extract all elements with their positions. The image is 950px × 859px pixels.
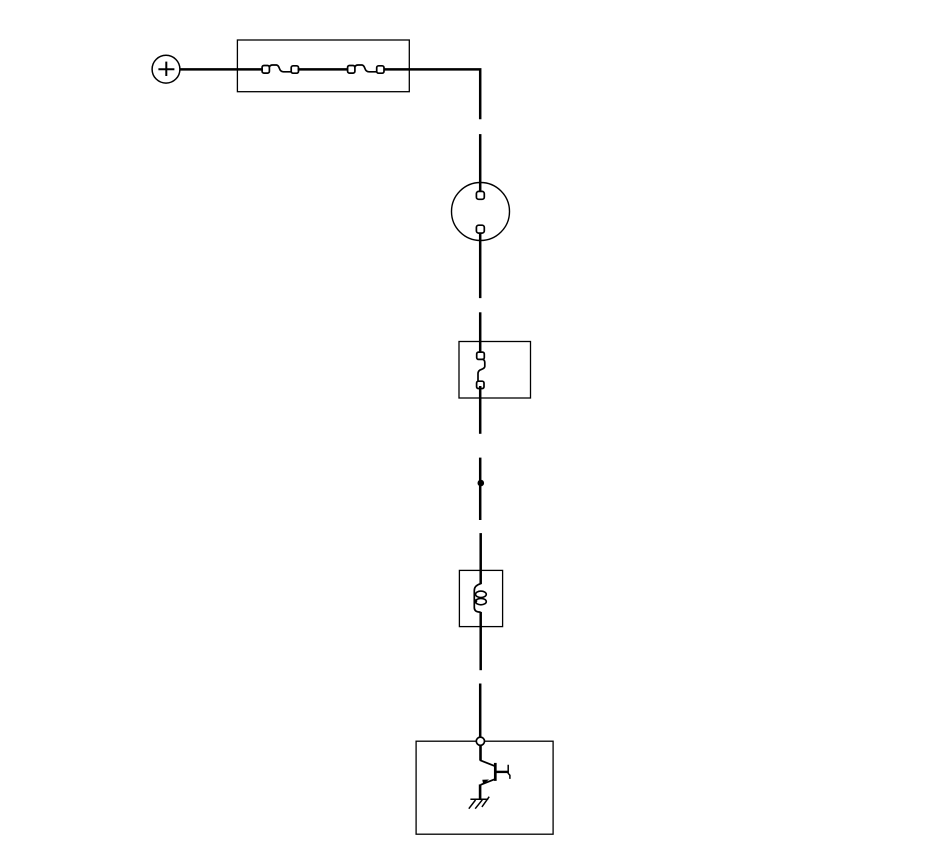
transistor Q1 emitter with arrow (481, 779, 495, 785)
fusible link FL1 (262, 65, 298, 73)
wire to ignition switch (479, 134, 482, 193)
wire terminal to transistor base (480, 745, 495, 766)
wire fusible link box down (479, 386, 482, 434)
wire to junction (479, 458, 482, 520)
ignition switch SW1 (452, 183, 510, 241)
fusible link FL3 vertical (477, 352, 485, 388)
igniter input terminal (476, 737, 484, 745)
ground (469, 797, 489, 809)
wire to igniter (479, 684, 482, 739)
igniter box (416, 741, 553, 834)
ignition coil box (459, 570, 502, 626)
wire ignition coil down (479, 612, 482, 670)
wire ignition switch down (479, 233, 482, 298)
battery positive terminal B+ (152, 55, 180, 83)
wire battery to fuse block (180, 68, 263, 71)
wire fuse block to corner and down (384, 69, 480, 119)
wire emitter to ground (479, 784, 482, 799)
fuse block box (237, 40, 409, 92)
wire to ignition coil (479, 533, 482, 584)
wire between fusible links (298, 68, 348, 71)
fusible link box (AM fuse) (459, 342, 531, 399)
transistor Q1 base bar (494, 763, 497, 781)
wire to fusible link box (479, 312, 482, 352)
coil winding L1 (474, 584, 486, 612)
node junction dot (478, 480, 485, 487)
fusible link FL2 (348, 65, 384, 73)
transistor Q1 collector (495, 765, 510, 779)
